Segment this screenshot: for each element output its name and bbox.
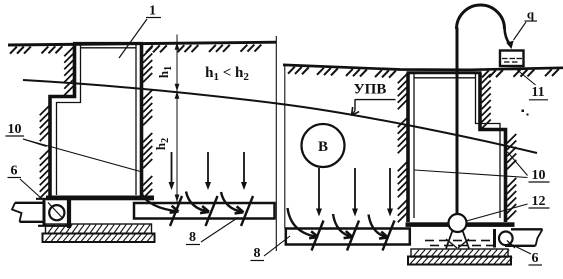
inequality caption h1 < h2: [205, 65, 249, 83]
drainage bed channel rectangle (right view, item 8): [286, 229, 410, 245]
soil hatching under right ground line: [288, 67, 559, 78]
drain pipe section circle (right, item 6): [499, 232, 513, 246]
soil hatching under left ground line: [10, 45, 261, 54]
pipe sleeve flanges (left drain 6): [36, 198, 70, 229]
label 10 (left) with two leaders: [6, 122, 141, 172]
groundwater level label UPV with arrow: [352, 82, 396, 116]
svg-text:6: 6: [532, 251, 539, 266]
building 1 inner wall line (left view): [57, 44, 137, 195]
svg-text:В: В: [318, 139, 328, 155]
dimension line for h1 and h2: [175, 35, 180, 203]
diagonal ticks across right channel: [312, 221, 395, 251]
svg-text:1: 1: [149, 4, 156, 19]
riser discharge pipe: [456, 28, 459, 215]
diagonal mark through right pipe circle: [507, 241, 515, 249]
pipe sleeve flange (right drain 6): [493, 229, 496, 248]
label 12 with leader: [467, 194, 550, 221]
label 1 with leader: [119, 4, 161, 59]
infiltration arrows into left channel (vertical): [169, 152, 248, 190]
label 10 (right) with two leaders: [415, 152, 550, 183]
right soil boundary line: [284, 65, 286, 229]
lower bedding slab under building (right view): [408, 257, 512, 265]
label 11 with leader: [516, 69, 549, 101]
svg-text:8: 8: [189, 230, 196, 245]
building outer wall outline (right view): [407, 73, 506, 222]
svg-text:q: q: [527, 7, 535, 22]
building floor slab (right view): [406, 222, 515, 227]
measuring tank (item 11): [500, 51, 524, 67]
groundwater drawdown curve: [23, 80, 537, 153]
svg-text:12: 12: [532, 194, 546, 209]
curved seep arrows in right channel: [288, 208, 389, 239]
label 6 (left) with leader: [8, 164, 42, 199]
building 1 floor slab (left view): [46, 196, 154, 201]
gravel bedding layer under building (left view): [46, 224, 152, 234]
drain pipe stub to the right with break line: [505, 229, 543, 246]
letter B in circle (water symbol): [302, 124, 345, 167]
label 6 (right) with leader: [510, 244, 543, 267]
gravel bedding layer under building (right view): [411, 249, 509, 257]
soil hatching along right wall of building 1: [143, 47, 152, 198]
diagonal mark through left pipe circle: [48, 203, 62, 218]
discharge curve with arrow into tank: [505, 29, 514, 50]
svg-text:10: 10: [8, 122, 22, 137]
sump pump / intake (item 12): [446, 214, 469, 249]
ground surface line (left view): [8, 42, 276, 45]
section separation line: [275, 36, 277, 251]
drainage bed channel rectangle (left view, item 8): [134, 203, 275, 219]
label h1 (rotated): [156, 66, 174, 78]
svg-text:11: 11: [531, 85, 544, 100]
stray scan dots: [522, 110, 529, 116]
diagonal ticks across left channel: [170, 196, 253, 226]
svg-text:8: 8: [254, 246, 261, 261]
svg-text:6: 6: [11, 164, 18, 179]
soil hatching along left wall of building 1: [40, 47, 74, 198]
svg-text:10: 10: [532, 168, 546, 183]
lower bedding slab under building (left view): [43, 234, 155, 243]
soil hatching along left wall (right view): [398, 74, 407, 222]
drain pipe section circle (left, item 6): [49, 205, 64, 220]
curved seep arrows in left channel: [142, 192, 244, 214]
building 1 outer wall outline (left view): [50, 43, 143, 196]
label q with leader: [514, 7, 538, 41]
soil hatching along right wall (right view): [482, 74, 517, 220]
label h2 (rotated): [153, 138, 171, 150]
building inner wall line (right view): [414, 74, 500, 219]
ground surface line (right view): [283, 65, 563, 70]
label 8 (left) with leader: [186, 218, 238, 246]
svg-text:УПВ: УПВ: [354, 82, 387, 98]
drain pipe stub to the left with break line: [12, 203, 45, 222]
label 8 (right) with leader: [251, 236, 291, 261]
siphon arc over ground: [457, 5, 505, 29]
infiltration arrows into right channel (vertical): [316, 168, 393, 217]
water in sump (dashes): [425, 241, 495, 246]
svg-text:h1 < h2: h1 < h2: [205, 65, 249, 83]
